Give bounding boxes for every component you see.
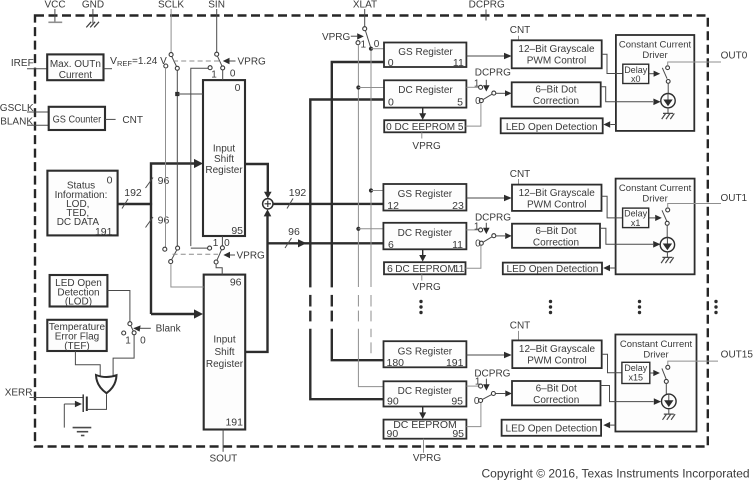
svg-text:96: 96 bbox=[158, 214, 170, 226]
wire OUT15 line bbox=[668, 350, 753, 366]
block DC Register (0-5) bbox=[384, 80, 466, 108]
wire dot correction to current source bbox=[601, 87, 661, 105]
label VPRG (XLAT switch) bbox=[322, 32, 364, 43]
pin VPRG tick row0 bbox=[412, 132, 441, 152]
wire driver to LED open detection row2 bbox=[603, 422, 615, 428]
svg-text:OUT0: OUT0 bbox=[721, 50, 748, 61]
switch DCPRG row0 bbox=[474, 67, 512, 107]
wire GS reg to PWM arrow bbox=[466, 53, 511, 60]
junction DC latch row1 bbox=[356, 227, 383, 231]
ground (driver row1) bbox=[661, 257, 674, 263]
node CNT row0 bbox=[510, 25, 531, 41]
current source row1 bbox=[660, 225, 674, 257]
svg-text:Register: Register bbox=[206, 359, 244, 370]
svg-text:0 DC EEPROM 5: 0 DC EEPROM 5 bbox=[386, 122, 464, 133]
wire DC reg to EEPROM arrow row2 bbox=[419, 407, 426, 420]
svg-text:95: 95 bbox=[452, 428, 464, 440]
svg-text:Register: Register bbox=[205, 165, 243, 176]
svg-text:SIN: SIN bbox=[208, 0, 225, 10]
pin VPRG tick row2 bbox=[413, 439, 442, 464]
svg-text:DC DATA: DC DATA bbox=[57, 217, 100, 228]
wire GS latch line bbox=[370, 49, 372, 354]
svg-text:12–Bit Grayscale: 12–Bit Grayscale bbox=[518, 44, 595, 55]
wire bottom clock to shift register 2 bbox=[171, 264, 204, 287]
svg-text:Correction: Correction bbox=[533, 238, 579, 249]
ground (driver row2) bbox=[663, 414, 676, 420]
svg-text:VPRG: VPRG bbox=[412, 282, 441, 293]
block 6-Bit Dot Correction row0 bbox=[512, 82, 601, 107]
svg-text:SCLK: SCLK bbox=[158, 0, 184, 10]
node CNT row2 bbox=[510, 321, 531, 341]
pin VCC bbox=[44, 0, 65, 22]
svg-text:DC Register: DC Register bbox=[398, 85, 453, 96]
bus vertical DC distribution bbox=[310, 100, 383, 400]
junction GS latch row0 bbox=[369, 47, 384, 51]
svg-text:11: 11 bbox=[454, 263, 465, 275]
switch output driver row0 bbox=[662, 66, 670, 84]
block LED Open Detection row2 bbox=[502, 420, 601, 436]
svg-text:5: 5 bbox=[457, 96, 463, 108]
svg-text:Copyright © 2016, Texas Instru: Copyright © 2016, Texas Instruments Inco… bbox=[482, 467, 750, 481]
node CNT output bbox=[105, 115, 143, 126]
svg-text:GS Counter: GS Counter bbox=[53, 115, 102, 126]
block LED Open Detection (LOD) bbox=[50, 275, 108, 308]
svg-text:OUT1: OUT1 bbox=[720, 193, 747, 204]
wire gate output bbox=[88, 394, 107, 409]
block GS Register (12-23) bbox=[383, 184, 466, 212]
pin XERR bbox=[5, 387, 83, 398]
svg-text:6: 6 bbox=[387, 263, 393, 275]
block GS Counter bbox=[49, 107, 105, 130]
svg-text:VCC: VCC bbox=[44, 0, 65, 10]
label 1/0 (XLAT switch) bbox=[361, 39, 380, 50]
block DC EEPROM (0-5) bbox=[384, 120, 465, 133]
wire 192 GS data bus bbox=[273, 187, 383, 209]
svg-text:GS Register: GS Register bbox=[398, 189, 453, 200]
svg-text:95: 95 bbox=[451, 396, 463, 408]
wire GS reg to PWM arrow row2 bbox=[466, 352, 511, 359]
current source row0 bbox=[661, 83, 675, 113]
continuation dots columns bbox=[419, 300, 717, 314]
svg-text:DC Register: DC Register bbox=[398, 386, 453, 397]
svg-text:CNT: CNT bbox=[510, 169, 531, 180]
wire delay out arrow bbox=[649, 71, 661, 77]
block Input Shift Register (top) U1 bbox=[203, 80, 245, 237]
svg-text:191: 191 bbox=[95, 226, 113, 238]
wire DC reg out row1 bbox=[466, 229, 478, 231]
svg-text:191: 191 bbox=[225, 416, 243, 428]
svg-text:VPRG: VPRG bbox=[237, 251, 266, 262]
svg-text:GS Register: GS Register bbox=[398, 346, 453, 357]
block GS Register (180-191) bbox=[384, 341, 467, 369]
svg-text:0: 0 bbox=[224, 238, 230, 249]
switch SCLK select (bottom) bbox=[163, 246, 180, 264]
svg-text:90: 90 bbox=[387, 428, 399, 440]
wire shift2 out to adder bbox=[245, 209, 271, 352]
svg-text:Driver: Driver bbox=[643, 349, 668, 360]
block Constant Current Driver row2 bbox=[615, 335, 696, 432]
block Constant Current Driver row0 bbox=[616, 35, 694, 131]
svg-text:Current: Current bbox=[59, 70, 93, 81]
svg-text:PWM Control: PWM Control bbox=[527, 55, 586, 66]
wire SIN alternate path bbox=[191, 68, 208, 246]
svg-text:VPRG: VPRG bbox=[238, 57, 267, 68]
block LED Open Detection row0 bbox=[501, 118, 603, 133]
pin SIN bbox=[208, 0, 225, 52]
svg-text:6–Bit Dot: 6–Bit Dot bbox=[536, 384, 577, 395]
switch SIN/SOUT select (bottom) bbox=[191, 236, 225, 275]
block 6-Bit Dot Correction row1 bbox=[512, 224, 600, 249]
wire SCLK to shift clock bbox=[175, 70, 203, 246]
wire DC reg to EEPROM arrow row1 bbox=[419, 249, 426, 261]
block Max. OUTn Current bbox=[47, 54, 103, 81]
switch DCPRG row2 bbox=[474, 368, 512, 407]
svg-text:12–Bit Grayscale: 12–Bit Grayscale bbox=[519, 344, 596, 355]
svg-text:Max. OUTn: Max. OUTn bbox=[50, 59, 101, 70]
svg-text:95: 95 bbox=[231, 225, 243, 237]
block Temperature Error Flag (TEF) bbox=[47, 320, 106, 352]
wire delay out arrow row1 bbox=[649, 215, 662, 221]
block Input Shift Register (bottom) U2 bbox=[204, 275, 246, 430]
label Blank bbox=[133, 324, 181, 335]
wire DC latch line bbox=[358, 45, 383, 387]
svg-text:96: 96 bbox=[230, 276, 242, 288]
svg-text:11: 11 bbox=[453, 57, 464, 69]
svg-text:DCPRG: DCPRG bbox=[475, 67, 511, 78]
wire shift1 out to adder bbox=[245, 164, 272, 199]
block Delay x15 bbox=[622, 362, 650, 383]
wire PWM out to delay row2 bbox=[602, 354, 622, 373]
svg-text:PWM Control: PWM Control bbox=[527, 200, 586, 211]
svg-text:Shift: Shift bbox=[214, 154, 234, 165]
svg-text:192: 192 bbox=[124, 187, 142, 199]
svg-text:DCPRG: DCPRG bbox=[469, 0, 505, 10]
wire PWM out to delay row1 bbox=[602, 196, 623, 218]
wire EEPROM out to DCPRG switch row1 bbox=[466, 245, 481, 268]
wire dot correction to current source row2 bbox=[601, 386, 662, 405]
wire LOD to blank switch bbox=[107, 291, 129, 322]
block 12-Bit Grayscale PWM Control row2 bbox=[512, 340, 601, 368]
pin XLAT bbox=[353, 0, 377, 27]
svg-text:11: 11 bbox=[452, 239, 463, 251]
svg-text:LED Open Detection: LED Open Detection bbox=[507, 264, 599, 275]
svg-text:96: 96 bbox=[288, 226, 300, 238]
svg-text:(LOD): (LOD) bbox=[65, 297, 92, 308]
wire GS reg to PWM arrow row1 bbox=[466, 195, 511, 202]
svg-text:x0: x0 bbox=[631, 74, 641, 84]
switch SIN select (top) bbox=[208, 52, 225, 80]
wire EEPROM out to DCPRG switch bbox=[466, 103, 481, 126]
svg-text:Blank: Blank bbox=[156, 324, 182, 335]
svg-text:x15: x15 bbox=[629, 372, 644, 382]
block 12-Bit Grayscale PWM Control row1 bbox=[512, 185, 602, 211]
wire arrow into top shift register bbox=[151, 159, 203, 319]
switch output driver row1 bbox=[662, 208, 670, 225]
svg-text:192: 192 bbox=[289, 187, 307, 199]
svg-text:XLAT: XLAT bbox=[353, 0, 377, 10]
node CNT row1 bbox=[510, 169, 531, 185]
wire blank switch to gate input bbox=[113, 335, 134, 377]
block 6-Bit Dot Correction row2 bbox=[512, 381, 601, 406]
svg-text:LED Open Detection: LED Open Detection bbox=[506, 122, 598, 133]
block DC Register (90-95) bbox=[384, 381, 467, 407]
wire 192-bit bus from status box bbox=[118, 187, 153, 209]
label VPRG (top right switch) bbox=[223, 57, 266, 68]
svg-text:Driver: Driver bbox=[642, 193, 667, 204]
svg-text:23: 23 bbox=[452, 200, 464, 212]
svg-text:Input: Input bbox=[213, 143, 235, 154]
svg-text:x1: x1 bbox=[631, 218, 641, 228]
pin DCPRG bbox=[469, 0, 505, 21]
svg-text:Driver: Driver bbox=[642, 50, 667, 61]
ground (earth) bbox=[73, 428, 92, 436]
svg-text:XERR: XERR bbox=[5, 387, 33, 398]
svg-text:DC EEPROM: DC EEPROM bbox=[395, 264, 456, 275]
svg-text:DC Register: DC Register bbox=[398, 228, 453, 239]
svg-text:0: 0 bbox=[107, 174, 113, 186]
block Delay x1 bbox=[623, 208, 649, 228]
block DC Register (6-11) bbox=[383, 223, 466, 251]
svg-text:Correction: Correction bbox=[533, 395, 579, 406]
svg-text:DC EEPROM: DC EEPROM bbox=[393, 419, 457, 431]
svg-text:PWM Control: PWM Control bbox=[527, 355, 586, 366]
svg-text:0: 0 bbox=[230, 69, 236, 80]
wire OUT0 line bbox=[668, 50, 748, 65]
svg-text:0: 0 bbox=[388, 96, 394, 108]
pin SOUT bbox=[210, 430, 238, 465]
svg-text:Delay: Delay bbox=[624, 363, 648, 373]
svg-text:LED Open Detection: LED Open Detection bbox=[506, 424, 598, 435]
svg-text:90: 90 bbox=[387, 396, 399, 408]
svg-text:0: 0 bbox=[140, 336, 146, 347]
block GS Register (0-11) bbox=[384, 43, 466, 69]
wire EEPROM out to DCPRG switch row2 bbox=[466, 403, 481, 427]
svg-text:191: 191 bbox=[446, 357, 464, 369]
wire PWM out to delay bbox=[602, 54, 623, 73]
svg-text:CNT: CNT bbox=[510, 25, 531, 36]
switch DCPRG row1 bbox=[474, 213, 512, 250]
block Constant Current Driver row1 bbox=[616, 179, 695, 275]
wire driver to LED open detection row1 bbox=[603, 265, 615, 271]
svg-text:0: 0 bbox=[475, 96, 481, 107]
svg-text:GND: GND bbox=[82, 0, 104, 10]
svg-text:6–Bit Dot: 6–Bit Dot bbox=[535, 226, 576, 237]
pin BLANK bbox=[0, 116, 48, 127]
wire delay out arrow row2 bbox=[650, 370, 660, 376]
pin SCLK bbox=[158, 0, 184, 53]
block Status Information bbox=[47, 171, 117, 238]
junction GS latch row1 bbox=[369, 188, 384, 192]
pin VPRG tick row1 bbox=[412, 274, 441, 293]
wire 96/96 splitter bus bbox=[146, 164, 197, 315]
svg-text:1: 1 bbox=[213, 238, 219, 249]
svg-text:0: 0 bbox=[388, 57, 394, 69]
switch Blank select bbox=[122, 322, 146, 347]
block DC EEPROM (90-95) bbox=[384, 419, 467, 440]
svg-text:0: 0 bbox=[474, 396, 480, 407]
switch SCLK select (top) bbox=[164, 53, 180, 71]
block LED Open Detection row1 bbox=[503, 263, 602, 275]
wire DC reg out row2 bbox=[466, 385, 478, 387]
svg-text:VPRG: VPRG bbox=[413, 453, 442, 464]
svg-text:Input: Input bbox=[213, 335, 235, 346]
wire DC reg to EEPROM arrow bbox=[419, 108, 426, 120]
block 12-Bit Grayscale PWM Control row0 bbox=[512, 40, 602, 68]
svg-text:VPRG: VPRG bbox=[412, 141, 441, 152]
svg-text:CNT: CNT bbox=[510, 321, 531, 332]
wire source to ground bbox=[63, 404, 65, 428]
svg-text:96: 96 bbox=[158, 175, 170, 187]
transistor Q1 (open-drain XERR) bbox=[64, 394, 87, 412]
pin GSCLK bbox=[0, 103, 49, 114]
svg-text:6: 6 bbox=[388, 239, 394, 251]
svg-text:CNT: CNT bbox=[122, 115, 143, 126]
svg-text:Correction: Correction bbox=[533, 96, 579, 107]
ground (driver row0) bbox=[662, 113, 675, 119]
svg-text:1: 1 bbox=[211, 69, 217, 80]
svg-text:0: 0 bbox=[475, 239, 481, 250]
svg-text:1: 1 bbox=[125, 336, 131, 347]
svg-text:GS Register: GS Register bbox=[398, 47, 453, 58]
pin IREF bbox=[11, 58, 47, 69]
svg-text:DCPRG: DCPRG bbox=[475, 213, 511, 224]
block DC EEPROM (6-11) bbox=[384, 262, 466, 275]
svg-text:IREF: IREF bbox=[11, 58, 34, 69]
wire DC reg out bbox=[466, 86, 478, 88]
svg-text:OUT15: OUT15 bbox=[721, 350, 753, 361]
svg-text:12: 12 bbox=[387, 200, 399, 212]
block Delay x0 bbox=[623, 64, 649, 84]
label 1/0 (bottom switch) bbox=[213, 238, 230, 249]
label VPRG (bottom switch) bbox=[223, 251, 265, 262]
wire dot correction to current source row1 bbox=[600, 228, 661, 247]
wire VREF contact line bbox=[165, 68, 167, 247]
device boundary dashed border bbox=[35, 16, 708, 447]
label 1/0 (SIN switch) bbox=[211, 69, 236, 81]
switch output driver row2 bbox=[662, 365, 670, 383]
wire OUT1 line bbox=[668, 193, 748, 208]
svg-text:SOUT: SOUT bbox=[210, 453, 238, 464]
current source row2 bbox=[662, 383, 677, 414]
junction DC latch row0 bbox=[356, 85, 384, 89]
svg-text:180: 180 bbox=[387, 357, 405, 369]
svg-text:Shift: Shift bbox=[214, 347, 234, 358]
mechanical link dashed (bottom switches) bbox=[173, 253, 219, 255]
svg-text:1: 1 bbox=[361, 40, 367, 51]
wire driver to LED open detection bbox=[603, 121, 616, 127]
or-gate U3 (pointing down) bbox=[96, 375, 117, 393]
mechanical link dashed (top switches) bbox=[173, 60, 219, 62]
pin GND bbox=[82, 0, 104, 27]
svg-text:12–Bit Grayscale: 12–Bit Grayscale bbox=[519, 188, 596, 199]
wire TEF to gate input bbox=[75, 351, 100, 377]
svg-text:6–Bit Dot: 6–Bit Dot bbox=[535, 85, 576, 96]
svg-text:VPRG: VPRG bbox=[322, 32, 351, 43]
summing node bbox=[263, 199, 273, 209]
bus vertical GS distribution bbox=[332, 62, 384, 360]
wire 96 DC data bus bbox=[268, 226, 384, 248]
wire VREF stub bbox=[104, 68, 113, 70]
svg-text:(TEF): (TEF) bbox=[64, 341, 90, 352]
switch XLAT latch select bbox=[356, 27, 371, 47]
svg-text:0: 0 bbox=[235, 82, 241, 94]
